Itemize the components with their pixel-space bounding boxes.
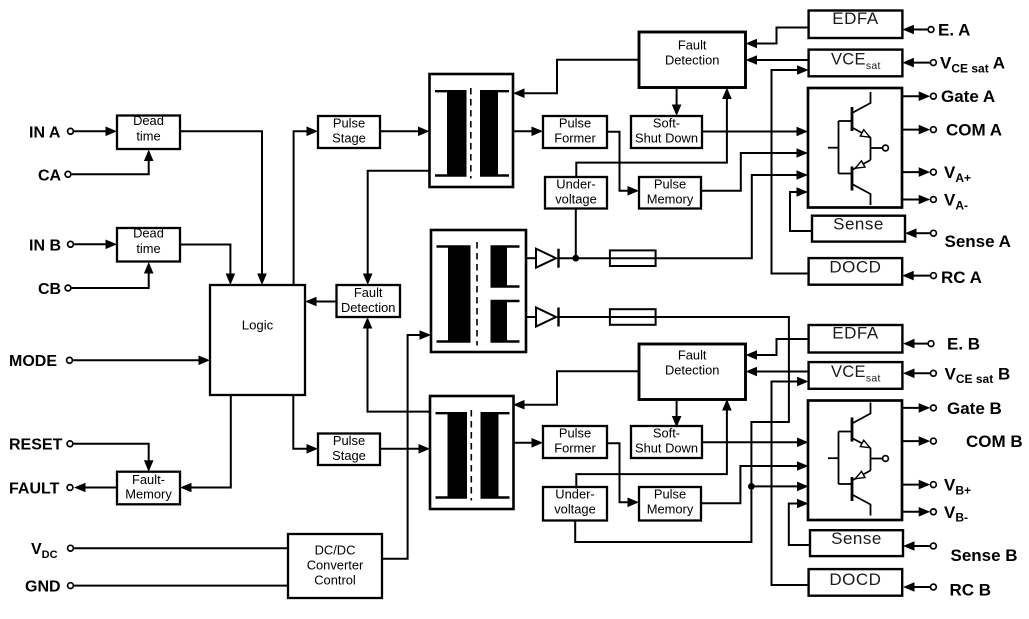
- block Pulse Stage B: [318, 433, 380, 465]
- output terminal FAULT: [9, 481, 73, 498]
- output stage A: [808, 88, 902, 208]
- block Sense A: [812, 214, 905, 241]
- block Pulse Former B: [543, 426, 607, 458]
- block VCEsat A: [809, 50, 903, 77]
- wire EDFA B to Fault Detection B: [746, 339, 809, 360]
- wire DOCD A to VCEsat A: [772, 65, 809, 273]
- terminal E. A: [902, 21, 970, 40]
- output stage transistors A: [828, 92, 888, 205]
- svg-text:COM A: COM A: [946, 121, 1002, 140]
- terminal COM A: [902, 121, 1002, 140]
- block Fault Detection B: [639, 344, 746, 400]
- svg-text:Logic: Logic: [242, 317, 274, 332]
- svg-text:Under-: Under-: [555, 487, 594, 502]
- wire Logic to Pulse Stage B: [293, 395, 318, 454]
- diode D2: [536, 308, 559, 327]
- wire DC/DC Converter to power transformer: [382, 330, 431, 559]
- block DOCD A: [809, 257, 903, 284]
- wire Pulse Memory B to output stage B: [702, 461, 809, 503]
- wire RESET to Fault-Memory: [74, 444, 154, 472]
- terminal RC B: [903, 581, 991, 600]
- block Pulse Memory B: [639, 487, 701, 521]
- wire Pulse Memory A to output stage A: [701, 148, 808, 191]
- terminal VA-: [902, 191, 968, 213]
- wire CA to Dead time A: [72, 150, 154, 175]
- svg-text:Detection: Detection: [341, 300, 395, 315]
- svg-text:EDFA: EDFA: [832, 9, 879, 28]
- wire transformer A to Pulse Former A: [513, 127, 543, 137]
- wire Sense A to output stage A: [790, 187, 812, 231]
- wire rectified supply B to gate driver B: [559, 317, 809, 491]
- terminal RC A: [902, 268, 982, 287]
- block Dead time B: [117, 226, 180, 262]
- resistor supply B: [610, 309, 656, 325]
- wire Sense B to output stage B: [789, 499, 810, 545]
- wire VCEsat B to Fault Detection B: [746, 367, 809, 377]
- wire Fault Detection A to transformer A: [513, 60, 639, 98]
- wire Pulse Former A to Pulse Memory A: [607, 132, 639, 196]
- svg-text:Control: Control: [314, 572, 356, 587]
- wire Fault Detection A to Soft-Shut Down A: [672, 88, 682, 117]
- svg-text:Pulse: Pulse: [559, 426, 591, 441]
- block Pulse Memory A: [639, 177, 701, 209]
- wire transformer B to Fault Detection middle: [363, 317, 430, 412]
- svg-text:RC B: RC B: [950, 581, 992, 600]
- wire Logic to Pulse Stage A: [294, 127, 318, 286]
- wire transformer A to Fault Detection middle: [363, 171, 430, 285]
- wire Fault Detection B to transformer B: [513, 371, 639, 409]
- svg-text:Memory: Memory: [647, 501, 694, 516]
- wire Fault Detection middle to Logic: [305, 297, 337, 307]
- svg-text:DOCD: DOCD: [829, 257, 881, 276]
- svg-text:Fault: Fault: [678, 38, 707, 53]
- wire IN B to Dead time B: [74, 240, 117, 250]
- block Fault-Memory: [117, 472, 180, 505]
- svg-text:Sense B: Sense B: [951, 546, 1018, 565]
- svg-text:CA: CA: [38, 168, 62, 185]
- svg-text:Pulse: Pulse: [559, 116, 591, 131]
- svg-text:Stage: Stage: [332, 448, 366, 463]
- junction supply A: [572, 255, 579, 262]
- svg-text:IN A: IN A: [29, 125, 61, 142]
- wire power transformer secondary B: [526, 316, 537, 318]
- terminal E. B: [903, 335, 980, 354]
- wire Soft-Shut Down B to output stage B: [702, 438, 809, 448]
- svg-text:Shut Down: Shut Down: [635, 131, 698, 146]
- svg-text:FAULT: FAULT: [9, 481, 60, 498]
- wire transformer B to Pulse Former B: [513, 438, 543, 448]
- power transformer: [431, 230, 526, 352]
- wire MODE to Logic: [73, 356, 210, 366]
- svg-text:Memory: Memory: [647, 191, 694, 206]
- terminal VA+: [902, 163, 971, 185]
- pulse transformer A: [430, 74, 514, 187]
- svg-text:Stage: Stage: [332, 131, 366, 146]
- block Dead time A: [117, 113, 180, 149]
- svg-text:Pulse: Pulse: [654, 177, 686, 192]
- svg-text:E. A: E. A: [938, 21, 970, 40]
- wire Under-voltage A to Fault Detection A: [576, 88, 731, 178]
- svg-text:Fault: Fault: [678, 348, 707, 363]
- wire Dead time A to Logic: [180, 131, 267, 285]
- terminal Gate B: [902, 399, 1002, 418]
- wire VCEsat A to Fault Detection A: [746, 55, 809, 65]
- svg-text:CB: CB: [38, 281, 61, 298]
- svg-text:Sense A: Sense A: [945, 232, 1011, 251]
- svg-text:Converter: Converter: [307, 557, 364, 572]
- wire Soft-Shut Down A to output stage A: [702, 127, 808, 137]
- block Sense B: [810, 529, 903, 556]
- wire EDFA A to Fault Detection A: [746, 28, 809, 49]
- wire Pulse Stage A to transformer A: [380, 127, 430, 137]
- svg-text:Dead: Dead: [133, 113, 164, 128]
- block Under-voltage B: [543, 487, 607, 521]
- block Under-voltage A: [545, 177, 607, 209]
- svg-text:GND: GND: [25, 579, 61, 596]
- svg-text:Sense: Sense: [833, 214, 884, 233]
- input terminal IN B: [29, 238, 73, 255]
- svg-text:RESET: RESET: [9, 437, 63, 454]
- input terminal CB: [38, 281, 71, 298]
- wire VDC to DC/DC Converter: [74, 547, 288, 549]
- svg-text:Detection: Detection: [665, 53, 719, 68]
- input terminal RESET: [9, 437, 73, 454]
- wire Fault Detection B to Soft-Shut Down B: [672, 399, 682, 428]
- terminal Sense B: [903, 541, 1018, 565]
- svg-text:Pulse: Pulse: [333, 433, 365, 448]
- wire DOCD B to VCEsat B: [772, 377, 809, 585]
- block EDFA A: [809, 9, 903, 38]
- terminal Gate A: [902, 87, 995, 106]
- wire Under-voltage B to Fault Detection B: [576, 399, 731, 489]
- wire Dead time B to Logic: [180, 245, 235, 286]
- wire Logic to Fault-Memory: [180, 395, 231, 492]
- svg-text:Fault: Fault: [354, 285, 383, 300]
- input terminal MODE: [9, 353, 72, 370]
- svg-text:Former: Former: [554, 441, 596, 456]
- svg-text:Fault-: Fault-: [132, 472, 165, 487]
- input terminal IN A: [29, 125, 73, 142]
- svg-text:Gate B: Gate B: [947, 399, 1002, 418]
- svg-text:Pulse: Pulse: [333, 116, 365, 131]
- input terminal GND: [25, 579, 73, 596]
- wire rectified supply A to gate driver A: [559, 170, 809, 258]
- svg-text:COM B: COM B: [966, 432, 1023, 451]
- block EDFA B: [809, 323, 903, 352]
- terminal COM B: [902, 432, 1023, 451]
- svg-text:Soft-: Soft-: [653, 426, 680, 441]
- terminal VB+: [902, 476, 971, 498]
- svg-text:RC A: RC A: [941, 268, 982, 287]
- terminal Sense A: [905, 228, 1011, 251]
- svg-text:Under-: Under-: [556, 177, 595, 192]
- svg-text:time: time: [136, 129, 160, 144]
- output stage transistors B: [828, 403, 888, 516]
- svg-text:DOCD: DOCD: [829, 570, 881, 589]
- junction supply B: [748, 483, 755, 490]
- block Soft-Shut Down B: [631, 426, 702, 458]
- svg-text:IN B: IN B: [29, 238, 61, 255]
- wire Pulse Former B to Pulse Memory B: [607, 443, 639, 507]
- wire junction to Under-voltage A: [575, 209, 577, 259]
- svg-text:Detection: Detection: [665, 363, 719, 378]
- block VCEsat B: [809, 362, 903, 389]
- wire Pulse Stage B to transformer B: [380, 444, 430, 454]
- block Logic: [210, 285, 305, 395]
- svg-text:Gate A: Gate A: [941, 87, 995, 106]
- block Fault Detection A: [639, 32, 746, 88]
- wire Under-voltage B to junction: [575, 486, 751, 542]
- svg-text:voltage: voltage: [554, 501, 596, 516]
- svg-text:voltage: voltage: [555, 191, 597, 206]
- svg-text:Dead: Dead: [133, 226, 164, 241]
- block Pulse Stage A: [318, 116, 380, 148]
- resistor supply A: [610, 250, 656, 266]
- svg-text:MODE: MODE: [9, 353, 57, 370]
- terminal VB-: [902, 503, 968, 525]
- wire power transformer secondary A: [526, 257, 537, 259]
- block Pulse Former A: [543, 116, 607, 148]
- terminal VCE sat A: [902, 54, 1005, 76]
- svg-text:EDFA: EDFA: [832, 323, 879, 342]
- svg-text:Former: Former: [554, 131, 596, 146]
- block Soft-Shut Down A: [631, 116, 702, 148]
- wire Fault-Memory to FAULT: [74, 483, 117, 493]
- svg-text:time: time: [136, 241, 160, 256]
- svg-text:DC/DC: DC/DC: [315, 542, 356, 557]
- diode D1: [536, 249, 559, 268]
- block Fault Detection middle: [337, 285, 401, 317]
- svg-text:Shut Down: Shut Down: [635, 441, 698, 456]
- input terminal VDC: [31, 541, 73, 561]
- pulse transformer B: [430, 396, 514, 509]
- wire CB to Dead time B: [72, 262, 154, 288]
- input terminal CA: [38, 168, 71, 185]
- wire IN A to Dead time A: [74, 127, 117, 137]
- svg-text:Pulse: Pulse: [654, 487, 686, 502]
- terminal VCE sat B: [903, 364, 1010, 386]
- output stage B: [808, 401, 902, 521]
- svg-text:Soft-: Soft-: [653, 116, 680, 131]
- block DOCD B: [809, 569, 903, 596]
- wire GND to DC/DC Converter: [74, 585, 288, 587]
- svg-text:Memory: Memory: [125, 487, 172, 502]
- svg-text:Sense: Sense: [831, 529, 882, 548]
- block DC/DC Converter Control: [288, 534, 382, 598]
- svg-text:E. B: E. B: [947, 335, 980, 354]
